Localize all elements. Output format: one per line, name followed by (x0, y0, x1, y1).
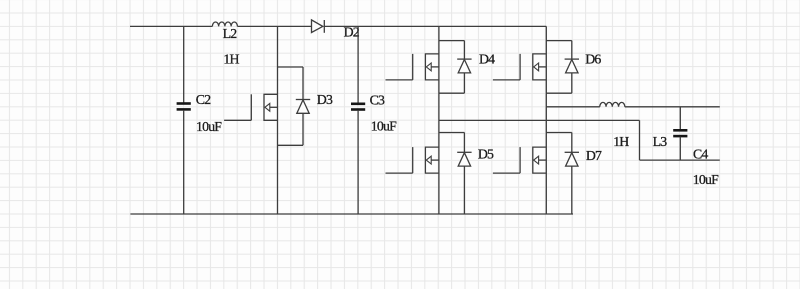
wire bottom jog from diode D4 branch to D4 source (439, 92, 465, 94)
wire diode D3 branch lower vertical (302, 113, 304, 145)
wire top jog from D6 drain to diode D6 branch (546, 40, 572, 42)
svg-text:D4: D4 (479, 51, 495, 66)
diode D4 cathode bar (457, 58, 471, 60)
transistor D3 gate bar (250, 94, 252, 120)
svg-text:10uF: 10uF (196, 119, 222, 134)
capacitor C2 (177, 102, 191, 105)
svg-text:C3: C3 (370, 92, 385, 107)
diode D2 (312, 20, 323, 33)
svg-text:D3: D3 (317, 92, 333, 107)
wire diode D4 branch lower vertical (463, 73, 465, 93)
diode D5 cathode bar (457, 151, 471, 153)
transistor D3 arrow (pointing left) (270, 106, 278, 108)
svg-text:D5: D5 (478, 147, 494, 162)
transistor MOSFET of D6 cell: channel box (533, 54, 547, 80)
transistor D4 arrow (pointing left) (431, 66, 439, 68)
svg-text:10uF: 10uF (693, 172, 719, 187)
transistor MOSFET of D3 cell: channel box (264, 94, 278, 120)
svg-text:D7: D7 (586, 148, 602, 163)
inductor L3 (600, 102, 625, 106)
wire right bridge leg vertical (top rail to bottom rail) (545, 26, 547, 214)
wire lower output terminal segment (640, 159, 720, 161)
transistor D7 arrow (pointing left) (539, 159, 547, 161)
transistor D6 gate bar (519, 54, 521, 80)
wire top jog from D7 drain to diode D7 branch (546, 132, 572, 134)
wire bottom jog from diode D3 branch to D3 source (278, 144, 304, 146)
transistor D4 gate bar (412, 54, 414, 80)
wire C2 top vertical (top rail to C2) (183, 26, 185, 103)
wire upper bridge output (right leg midpoint to L3) (546, 106, 600, 108)
wire gate lead of D7 (unconnected stub) (493, 172, 520, 174)
wire C4 top vertical (upper output to C4) (679, 107, 681, 130)
wire C3 bottom vertical (C3 to bottom rail) (357, 110, 359, 214)
inductor L2 (212, 22, 237, 26)
wire top jog from D4 drain to diode D4 branch (439, 40, 465, 42)
diode D5 triangle (458, 153, 470, 166)
transistor D5 arrow (pointing left) (431, 159, 439, 161)
svg-text:C2: C2 (196, 92, 211, 107)
svg-text:10uF: 10uF (371, 118, 397, 133)
wire top rail right segment (D2 cathode to right bridge leg) (324, 25, 546, 27)
capacitor C4 (673, 129, 687, 132)
wire diode D6 branch lower vertical (571, 73, 573, 93)
transistor D5 gate bar (412, 147, 414, 173)
wire gate lead of D5 (unconnected stub) (386, 172, 413, 174)
wire lower bridge output (left leg midpoint going right) (439, 119, 640, 121)
diode D7 cathode bar (565, 151, 579, 153)
capacitor C3 (351, 103, 365, 106)
wire top rail middle segment (L2 to D2 anode) (237, 25, 311, 27)
transistor D6 arrow (pointing left) (539, 66, 547, 68)
diode D6 triangle (566, 60, 578, 73)
svg-text:C4: C4 (693, 147, 708, 162)
wire top jog from D5 drain to diode D5 branch (439, 132, 465, 134)
diode D4 triangle (458, 60, 470, 73)
diode D3 triangle (297, 100, 309, 113)
svg-text:L2: L2 (223, 26, 238, 41)
svg-text:D2: D2 (344, 25, 360, 40)
svg-text:L3: L3 (653, 134, 668, 149)
wire bottom jog from diode D6 branch to D6 source (546, 92, 572, 94)
transistor MOSFET of D4 cell: channel box (425, 54, 439, 80)
diode D3 cathode bar (296, 99, 310, 101)
wire C4 bottom vertical (C4 to lower output) (679, 137, 681, 160)
wire top rail left segment (input to L2) (130, 25, 212, 27)
wire diode D5 branch upper vertical (463, 133, 465, 153)
wire gate lead of D4 (unconnected stub) (386, 79, 413, 81)
wire diode D3 branch upper vertical (302, 67, 304, 100)
wire C3 top vertical (top rail to C3) (357, 26, 359, 103)
wire gate lead of D6 (unconnected stub) (493, 79, 520, 81)
transistor MOSFET of D5 cell: channel box (425, 147, 439, 173)
wire diode D6 branch upper vertical (571, 41, 573, 60)
diode D6 cathode bar (565, 58, 579, 60)
wire D3 leg vertical (top rail to bottom rail) (277, 26, 279, 214)
wire lower output vertical jog (639, 120, 641, 160)
wire C2 bottom vertical (C2 to bottom rail) (183, 110, 185, 214)
wire gate lead of D3 (unconnected stub) (224, 119, 251, 121)
diode D7 triangle (566, 153, 578, 166)
svg-text:1H: 1H (223, 51, 239, 66)
wire left bridge leg vertical (top rail to bottom rail) (438, 26, 440, 214)
transistor MOSFET of D7 cell: channel box (533, 147, 547, 173)
diode D2 cathode bar (323, 20, 325, 33)
wire bottom rail (130, 213, 573, 215)
svg-text:D6: D6 (585, 51, 601, 66)
wire diode D4 branch upper vertical (463, 41, 465, 60)
transistor D7 gate bar (519, 147, 521, 173)
wire diode D7 branch upper vertical (571, 133, 573, 153)
wire diode D5 branch lower vertical (463, 166, 465, 214)
wire top jog from D3 drain to diode D3 branch (278, 66, 304, 68)
wire diode D7 branch lower vertical (571, 166, 573, 214)
svg-text:1H: 1H (613, 134, 629, 149)
wire upper output segment (L3 to terminal) (625, 106, 720, 108)
